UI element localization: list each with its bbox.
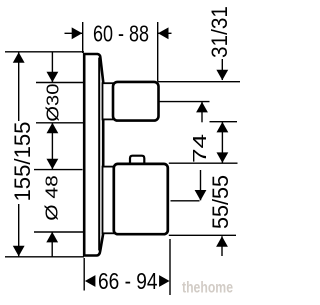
svg-text:74: 74 xyxy=(189,134,210,163)
svg-text:66 - 94: 66 - 94 xyxy=(98,268,158,294)
svg-text:155/155: 155/155 xyxy=(10,122,35,202)
svg-text:31/31: 31/31 xyxy=(207,6,232,58)
svg-text:55/55: 55/55 xyxy=(208,175,233,229)
svg-text:thehome: thehome xyxy=(182,280,233,297)
svg-text:Ø30: Ø30 xyxy=(43,83,63,121)
svg-text:Ø 48: Ø 48 xyxy=(42,175,62,221)
svg-text:60 - 88: 60 - 88 xyxy=(93,21,149,47)
